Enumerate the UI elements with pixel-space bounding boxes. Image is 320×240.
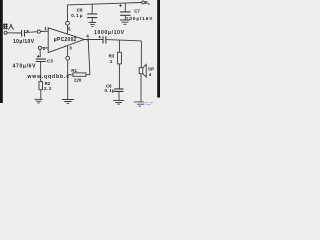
supply top wire xyxy=(67,3,141,5)
wire R3 to C6 xyxy=(118,64,120,89)
svg-text:5: 5 xyxy=(68,27,71,32)
C7 polarity plus xyxy=(119,4,122,7)
right scan border bar xyxy=(157,0,160,98)
wire top wire to C8 xyxy=(91,4,93,14)
wire C3 to R2 xyxy=(40,62,42,82)
capacitor C3 plates xyxy=(36,59,46,61)
watermark smudge near speaker ground xyxy=(145,103,154,105)
svg-text:C7: C7 xyxy=(134,8,140,13)
capacitor C1 plates xyxy=(22,30,25,37)
input terminal circle xyxy=(4,31,7,34)
svg-text:0. 1 µ: 0. 1 µ xyxy=(71,13,83,18)
wire speaker to ground xyxy=(140,74,142,102)
svg-text:www.qqdbb.c: www.qqdbb.c xyxy=(27,74,70,80)
wire C6 to ground xyxy=(118,92,120,101)
wire pin2 down to C3 xyxy=(39,50,41,58)
capacitor C8 plates xyxy=(87,14,97,18)
svg-text:µPC2002: µPC2002 xyxy=(54,37,77,43)
svg-text:3: 3 xyxy=(69,46,72,51)
svg-text:470µ/6V: 470µ/6V xyxy=(13,64,37,70)
wire top corner down to pin5 circle xyxy=(66,5,68,21)
svg-text:4: 4 xyxy=(149,72,152,77)
resistor R3 box xyxy=(118,52,122,64)
svg-text:220: 220 xyxy=(74,78,82,83)
ground under C6 xyxy=(113,100,124,104)
svg-text:C3: C3 xyxy=(47,59,53,64)
svg-text:C8: C8 xyxy=(77,8,83,13)
svg-text:1: 1 xyxy=(44,26,47,31)
wire pin1 circle to op-amp xyxy=(40,30,48,32)
svg-text:2: 2 xyxy=(43,46,46,51)
pin 3 circle xyxy=(66,56,70,60)
wire output node down to R3 xyxy=(118,41,120,53)
svg-text:0. 1µ: 0. 1µ xyxy=(105,88,115,93)
input label 输入 xyxy=(3,23,14,29)
speaker SP horn xyxy=(143,64,146,77)
wire pin2 circle to op-amp xyxy=(42,47,49,49)
pin 2 node circle xyxy=(38,46,41,49)
left scan border bar xyxy=(0,0,3,103)
ground under speaker (bluish) xyxy=(134,102,145,106)
C3 polarity plus xyxy=(37,55,40,58)
speaker SP body xyxy=(139,68,143,74)
wire C7 to ground xyxy=(124,16,126,20)
wire pin3 circle down to ground xyxy=(67,60,69,99)
wire input terminal to C1 xyxy=(7,32,21,34)
pin 5 circle xyxy=(66,21,70,25)
wire C8 to ground xyxy=(91,18,93,23)
capacitor C6 plates xyxy=(114,89,123,92)
ground under C8 xyxy=(89,23,96,27)
capacitor C5 plates xyxy=(103,36,106,43)
C5 polarity plus xyxy=(98,36,101,39)
pin 1 node circle xyxy=(37,30,40,33)
supply terminal circle xyxy=(142,1,145,4)
wire top wire to C7 xyxy=(124,3,126,12)
wire C5 to speaker corner xyxy=(106,40,141,41)
wire C1 to pin 1 xyxy=(25,31,37,34)
svg-text:10µ/10V: 10µ/10V xyxy=(13,39,35,45)
output wire pin4 xyxy=(84,39,102,41)
wire R2 to ground xyxy=(40,90,42,100)
capacitor C7 plates xyxy=(120,12,130,15)
C1 polarity plus xyxy=(26,30,29,33)
resistor R1 box xyxy=(73,73,86,76)
wire R1 right to riser corner xyxy=(86,74,90,76)
ground under C7 xyxy=(120,20,130,24)
wire pin3 line to R1 xyxy=(68,74,73,76)
riser wire up to output node xyxy=(88,40,90,75)
resistor R2 box xyxy=(39,82,43,90)
pin 3 wire from op-amp bottom edge xyxy=(67,45,69,56)
wire corner down to speaker xyxy=(140,41,142,68)
svg-text:c: c xyxy=(148,2,150,6)
svg-text:2. 2: 2. 2 xyxy=(44,86,52,91)
op-amp U1 triangle xyxy=(48,28,84,53)
svg-text:4: 4 xyxy=(86,33,89,38)
output junction dot xyxy=(87,39,89,41)
ground under R2 xyxy=(34,99,42,103)
svg-text:1000µ/10V: 1000µ/10V xyxy=(94,30,125,36)
ground under pin 3 xyxy=(62,100,74,104)
wire pin5 circle to op-amp top edge xyxy=(67,25,69,34)
svg-text:R1: R1 xyxy=(71,68,77,73)
